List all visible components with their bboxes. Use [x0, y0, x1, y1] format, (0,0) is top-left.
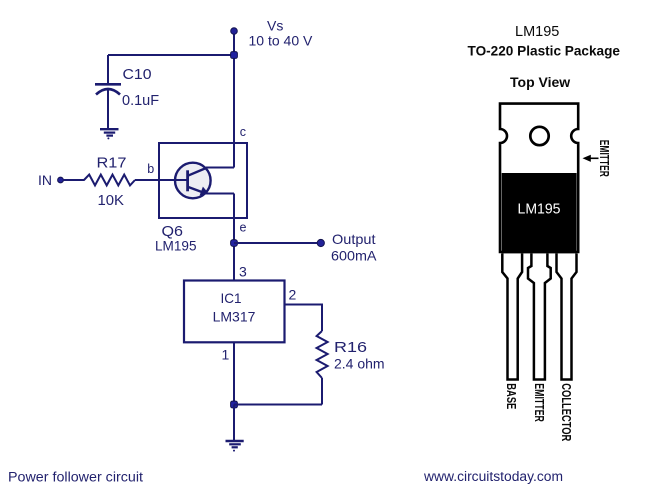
svg-text:IC1: IC1	[221, 290, 242, 306]
package body black	[502, 173, 577, 253]
svg-text:IN: IN	[38, 172, 52, 188]
svg-text:LM195: LM195	[515, 24, 559, 40]
svg-text:TO-220 Plastic Package: TO-220 Plastic Package	[468, 43, 621, 59]
svg-text:10 to 40 V: 10 to 40 V	[249, 33, 313, 49]
node output terminal	[317, 239, 324, 246]
svg-text:www.circuitstoday.com: www.circuitstoday.com	[423, 469, 563, 484]
svg-text:Vs: Vs	[267, 18, 283, 34]
wire ground horizontal	[234, 404, 322, 406]
package mounting hole	[530, 127, 548, 145]
node Vs terminal	[231, 28, 238, 35]
svg-text:Top View: Top View	[510, 74, 570, 90]
pin EMITTER	[528, 254, 551, 380]
transistor Q6 outline box	[159, 143, 247, 218]
ground C10	[100, 129, 119, 139]
resistor R17	[84, 175, 135, 186]
svg-text:C10: C10	[123, 66, 152, 83]
IC IC1 box	[184, 281, 285, 343]
svg-text:2: 2	[289, 287, 297, 303]
wire pin1 down	[233, 342, 235, 405]
svg-text:c: c	[240, 125, 246, 139]
wire IN to R17	[63, 179, 85, 181]
svg-text:b: b	[147, 162, 154, 176]
svg-text:e: e	[240, 221, 247, 235]
package TO-220 tab outline	[500, 104, 578, 252]
wire R17 to base	[135, 179, 187, 181]
capacitor C10	[95, 55, 121, 128]
svg-text:600mA: 600mA	[331, 248, 377, 264]
wire pin2 to R16	[285, 305, 323, 332]
svg-text:Output: Output	[332, 231, 376, 247]
svg-text:2.4 ohm: 2.4 ohm	[334, 356, 385, 372]
svg-text:COLLECTOR: COLLECTOR	[559, 383, 573, 441]
svg-text:LM195: LM195	[518, 201, 561, 218]
wire Vs to C10	[108, 54, 234, 56]
svg-text:LM195: LM195	[155, 238, 197, 254]
node IN terminal	[58, 177, 64, 183]
svg-text:10K: 10K	[98, 193, 125, 209]
svg-text:0.1uF: 0.1uF	[122, 93, 159, 109]
wire emitter inside box	[207, 193, 235, 195]
svg-text:EMITTER: EMITTER	[532, 383, 546, 422]
ground main	[226, 441, 244, 452]
junction ground node	[231, 401, 238, 408]
pin BASE	[502, 254, 522, 380]
svg-text:R17: R17	[97, 155, 127, 172]
wire R16 bottom	[321, 378, 323, 405]
svg-text:LM317: LM317	[213, 309, 256, 325]
svg-text:BASE: BASE	[504, 383, 518, 409]
svg-text:R16: R16	[334, 339, 367, 356]
wire to main ground	[233, 405, 235, 441]
resistor R16	[317, 331, 328, 378]
wire collector inside box	[206, 167, 234, 169]
emitter arrow	[583, 155, 599, 162]
transistor Q6	[174, 163, 211, 199]
svg-text:1: 1	[222, 347, 230, 363]
pin COLLECTOR	[557, 254, 577, 380]
wire emitter down to IC1	[233, 194, 235, 281]
svg-text:Power follower circuit: Power follower circuit	[8, 470, 143, 485]
svg-text:3: 3	[239, 264, 247, 280]
wire Vs bus (collector vertical)	[233, 31, 235, 168]
svg-text:EMITTER: EMITTER	[597, 140, 611, 177]
junction output node	[231, 240, 238, 247]
wire output	[234, 242, 318, 244]
junction Vs bus	[231, 52, 238, 59]
